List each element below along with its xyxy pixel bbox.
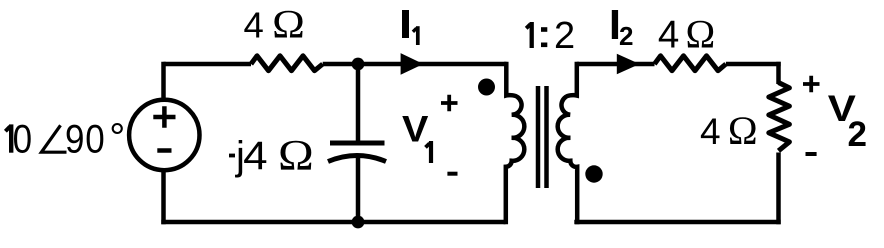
label I1 (402, 10, 418, 45)
node dot bottom (junction) (352, 216, 365, 229)
voltage source minus sign (157, 148, 171, 153)
transformer dot (primary, top) (478, 79, 495, 96)
resistor R3 4Ω load (vertical zigzag) (769, 83, 790, 151)
svg-text:V: V (402, 109, 429, 151)
wire: capacitor branch top stub (356, 64, 361, 141)
label -j4 Ω : minus (229, 154, 235, 158)
label -j4 Ω : j4 (235, 133, 268, 178)
svg-text:Ω: Ω (278, 131, 314, 179)
label V2 (828, 88, 857, 129)
svg-text:°: ° (109, 116, 125, 160)
V1 plus sign (441, 95, 458, 111)
label V1 subscript 1 (426, 141, 432, 163)
wire: primary loop bottom (161, 220, 505, 225)
label V2 subscript 2 (848, 115, 867, 154)
label 4 (load) (700, 111, 721, 152)
label 4 (top left) (244, 5, 264, 46)
capacitor C1 bottom curved plate (328, 156, 386, 162)
transformer core lines (538, 86, 547, 188)
current arrow I1 (401, 53, 424, 75)
voltage source Vs circle (129, 100, 199, 170)
svg-text:Ω: Ω (728, 108, 758, 153)
label 1:2 : digit 2 (554, 15, 575, 57)
svg-text:4: 4 (658, 13, 679, 56)
label 1:2 : colon (541, 27, 547, 47)
wire: primary loop top (164, 62, 507, 67)
svg-text:2: 2 (619, 21, 633, 51)
svg-text:2: 2 (848, 115, 867, 154)
svg-text:4: 4 (700, 111, 721, 152)
label 4 (top right) (658, 13, 679, 56)
svg-text:2: 2 (554, 15, 575, 57)
transformer dot (secondary, bottom) (585, 165, 602, 182)
label 10∠90° : digit 0 (13, 117, 32, 162)
label V1 (402, 109, 429, 151)
angle symbol (41, 125, 66, 152)
wire: secondary loop bottom (574, 220, 780, 225)
label 10∠90° : digits 90 (65, 117, 105, 162)
V1 minus sign (447, 172, 457, 176)
label 10∠90° : digit 1 (5, 124, 11, 152)
V2 plus sign (803, 76, 820, 92)
degree symbol (109, 116, 125, 160)
label Ω (top right) (686, 11, 716, 56)
wire: secondary right vertical bottom stub (776, 153, 781, 225)
wire: secondary loop top (577, 62, 781, 67)
svg-text:Ω: Ω (272, 3, 305, 47)
wire: secondary right vertical top stub (776, 62, 781, 84)
secondary winding of transformer (558, 62, 578, 224)
capacitor C1 top plate (330, 141, 385, 146)
wire: capacitor branch bottom stub (356, 156, 361, 222)
svg-text:Ω: Ω (686, 11, 716, 56)
label 1:2 turns ratio : digit 1 (526, 22, 532, 48)
label -j4 Ω : omega (278, 131, 314, 179)
label I2 (612, 10, 634, 51)
svg-text:9: 9 (65, 117, 84, 162)
resistor R1 4Ω (top left zigzag) (251, 56, 323, 71)
primary winding of transformer (506, 62, 525, 224)
V2 minus sign (806, 152, 817, 156)
node dot top (junction) (352, 58, 365, 71)
svg-text:4: 4 (244, 5, 264, 46)
wire: primary loop left vertical (161, 62, 166, 224)
svg-text:4: 4 (243, 133, 267, 178)
current arrow I2 (617, 54, 640, 74)
svg-text:0: 0 (85, 117, 104, 162)
label Ω (top left) (272, 3, 305, 47)
voltage source plus sign (153, 106, 175, 127)
resistor R2 4Ω (top right zigzag) (655, 56, 726, 71)
svg-text:0: 0 (13, 117, 32, 162)
label Ω (load) (728, 108, 758, 153)
